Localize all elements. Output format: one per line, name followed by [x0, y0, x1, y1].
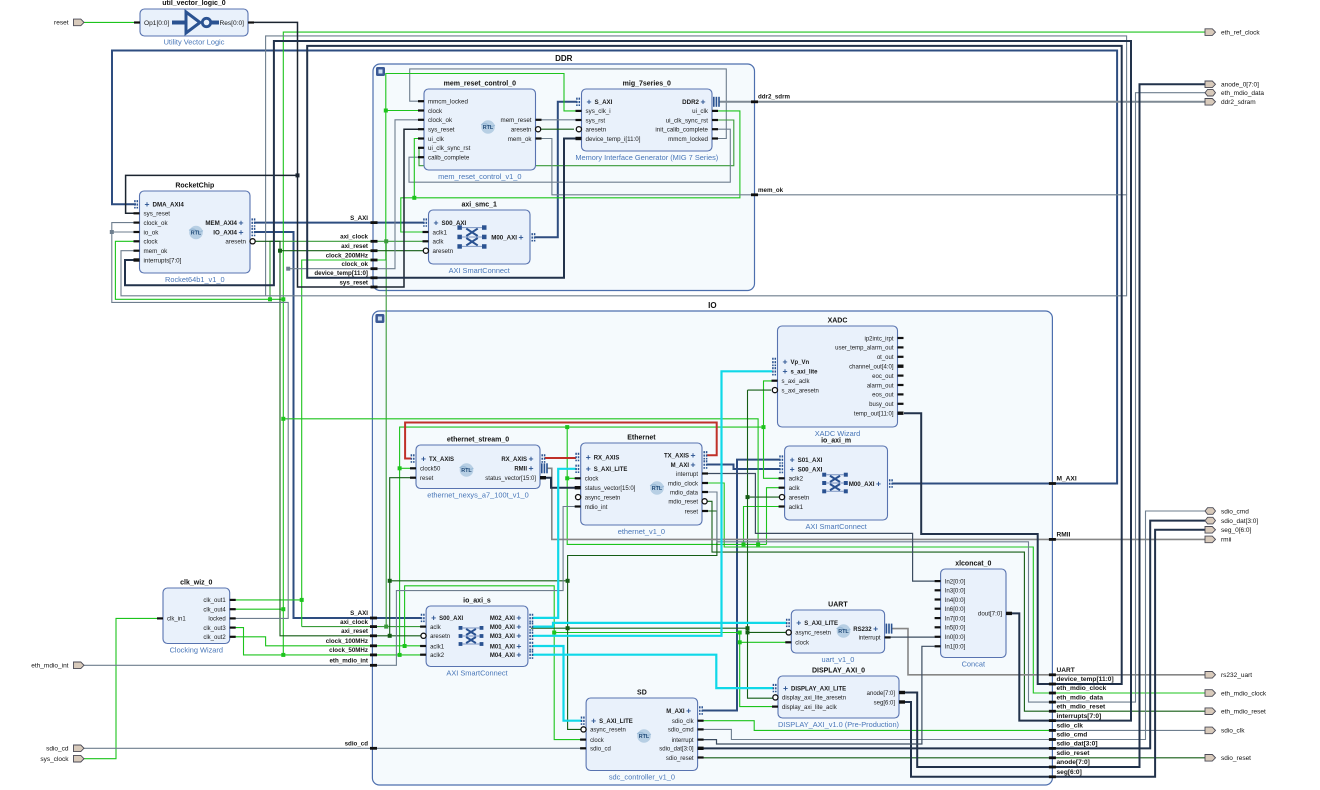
svg-text:clk_out1: clk_out1	[203, 598, 226, 604]
wire axi_reset RocketChip.aresetn to axi_smc_1.aresetn	[256, 241, 425, 252]
svg-text:interrupt: interrupt	[672, 738, 694, 744]
svg-text:RocketChip: RocketChip	[175, 183, 214, 190]
svg-text:mem_reset_control_0: mem_reset_control_0	[444, 81, 516, 88]
svg-text:sdio_cd: sdio_cd	[345, 741, 369, 748]
wire axi_clock riser to io_axi_s.aclk	[302, 625, 422, 629]
svg-text:+: +	[783, 683, 788, 693]
svg-text:mem_reset_control_v1_0: mem_reset_control_v1_0	[438, 172, 521, 181]
port eth_mdio_data	[1205, 89, 1264, 97]
svg-text:aresetn: aresetn	[433, 248, 454, 255]
wire clock spine io area	[552, 631, 742, 635]
svg-text:S01_AXI: S01_AXI	[798, 457, 823, 464]
svg-text:sys_reset: sys_reset	[339, 279, 368, 286]
wire axi_clock riser vertical	[384, 239, 388, 626]
port sdio_cmd	[1205, 508, 1249, 516]
wire axi_reset riser to io_axi_s.aresetn	[280, 251, 422, 638]
svg-text:Res[0:0]: Res[0:0]	[219, 20, 244, 27]
svg-text:eoc_out: eoc_out	[872, 374, 894, 380]
svg-text:S_AXI: S_AXI	[350, 610, 368, 617]
svg-text:reset: reset	[685, 509, 699, 515]
svg-text:clk_wiz_0: clk_wiz_0	[180, 580, 212, 587]
svg-text:eth_mdio_data: eth_mdio_data	[1057, 694, 1104, 701]
svg-text:DMA_AXI4: DMA_AXI4	[153, 202, 185, 209]
svg-text:device_temp[11:0]: device_temp[11:0]	[314, 270, 368, 277]
svg-text:+: +	[586, 464, 591, 474]
svg-text:RX_AXIS: RX_AXIS	[594, 455, 620, 461]
svg-text:DDR: DDR	[555, 54, 573, 63]
svg-text:+: +	[145, 199, 150, 209]
svg-text:IO: IO	[708, 301, 716, 310]
svg-text:AXI SmartConnect: AXI SmartConnect	[805, 522, 866, 531]
svg-text:+: +	[516, 650, 521, 660]
wire axi_clock to axi_smc_1.aclk and RocketChip.clock	[270, 241, 424, 299]
svg-text:sys_rst: sys_rst	[586, 117, 606, 124]
wire clock_50MHz riser	[398, 425, 766, 655]
svg-text:sdio_dat[3:0]: sdio_dat[3:0]	[1221, 518, 1258, 525]
svg-text:In6[0:0]: In6[0:0]	[945, 606, 966, 613]
svg-text:rs232_uart: rs232_uart	[1221, 672, 1252, 679]
svg-text:sdio_cmd: sdio_cmd	[668, 728, 694, 734]
svg-text:device_temp_i[11:0]: device_temp_i[11:0]	[586, 136, 641, 143]
svg-text:alarm_out: alarm_out	[867, 383, 894, 389]
svg-text:eth_mdio_reset: eth_mdio_reset	[1057, 703, 1107, 710]
svg-text:display_axi_lite_aresetn: display_axi_lite_aresetn	[782, 696, 846, 702]
svg-text:+: +	[790, 464, 795, 474]
port rs232_uart	[1205, 672, 1252, 680]
svg-text:M00_AXI: M00_AXI	[849, 481, 875, 488]
svg-text:clock_200MHz: clock_200MHz	[326, 252, 368, 259]
svg-text:RTL: RTL	[191, 231, 202, 237]
svg-text:device_temp[11:0]: device_temp[11:0]	[1057, 676, 1114, 683]
wire clock net RocketChip.clock loop	[115, 241, 283, 301]
port reset	[54, 19, 84, 27]
svg-text:aclk1: aclk1	[430, 644, 445, 650]
svg-text:eth_mdio_clock: eth_mdio_clock	[1057, 685, 1107, 692]
block XADC	[772, 318, 904, 439]
block xlconcat_0	[935, 561, 1012, 669]
svg-text:eth_mdio_clock: eth_mdio_clock	[1221, 690, 1267, 697]
wire SD.interrupt to xlconcat_0.In1	[702, 646, 935, 744]
svg-text:clock_ok: clock_ok	[428, 117, 453, 124]
svg-text:channel_out[4:0]: channel_out[4:0]	[849, 365, 894, 371]
svg-text:M01_AXI: M01_AXI	[490, 644, 515, 650]
svg-text:s_axi_aresetn: s_axi_aresetn	[782, 388, 819, 394]
wire clock_100MHz branch SD.clock	[403, 586, 581, 740]
svg-text:seg[6:0]: seg[6:0]	[874, 700, 896, 706]
svg-text:clock_ok: clock_ok	[342, 261, 369, 268]
svg-text:DISPLAY_AXI_v1.0 (Pre-Producti: DISPLAY_AXI_v1.0 (Pre-Production)	[778, 720, 899, 729]
wire Ethernet.TX_AXIS to ethernet_stream_0.TX_AXIS	[405, 423, 717, 459]
svg-text:DISPLAY_AXI_0: DISPLAY_AXI_0	[812, 668, 865, 675]
wire mem_reset_control.mem_reset to mig.sys_rst	[536, 119, 578, 121]
svg-text:TX_AXIS: TX_AXIS	[664, 454, 689, 460]
port eth_mdio_clock	[1205, 690, 1267, 698]
svg-text:Vp_Vn: Vp_Vn	[791, 360, 810, 366]
svg-text:TX_AXIS: TX_AXIS	[429, 457, 454, 463]
svg-text:sys_reset: sys_reset	[428, 127, 455, 134]
block Ethernet	[575, 435, 708, 537]
svg-text:Memory Interface Generator (MI: Memory Interface Generator (MIG 7 Series…	[575, 153, 718, 162]
svg-text:locked: locked	[208, 617, 225, 623]
block util_vector_logic_0	[134, 0, 254, 47]
svg-text:s_axi_aclk: s_axi_aclk	[782, 379, 811, 385]
wire sdio_cmd SD to port	[702, 511, 1205, 740]
svg-text:+: +	[421, 453, 426, 463]
wire async branch XADC.s_axi_aresetn	[748, 389, 772, 391]
svg-text:temp_out[11:0]: temp_out[11:0]	[854, 412, 894, 418]
svg-text:+: +	[586, 452, 591, 462]
svg-text:clock: clock	[590, 738, 605, 744]
svg-text:+: +	[690, 459, 695, 469]
svg-text:+: +	[783, 366, 788, 376]
svg-text:clock: clock	[795, 641, 810, 647]
svg-text:seg_0[6:0]: seg_0[6:0]	[1221, 527, 1252, 534]
svg-text:reset: reset	[420, 476, 434, 482]
svg-text:axi_smc_1: axi_smc_1	[461, 202, 497, 209]
svg-text:DISPLAY_AXI_LITE: DISPLAY_AXI_LITE	[791, 686, 846, 692]
svg-text:+: +	[686, 705, 691, 715]
block mig_7series_0	[575, 81, 719, 163]
svg-text:sdio_cmd: sdio_cmd	[1221, 508, 1249, 515]
svg-text:M00_AXI: M00_AXI	[490, 625, 515, 631]
svg-text:clk_in1: clk_in1	[167, 617, 186, 623]
svg-text:clock_ok: clock_ok	[144, 220, 169, 227]
svg-text:+: +	[591, 716, 596, 726]
port sdio_dat[3:0]	[1205, 517, 1258, 525]
svg-text:RX_AXIS: RX_AXIS	[501, 457, 527, 463]
svg-text:aresetn: aresetn	[586, 127, 607, 134]
svg-text:sys_clk_i: sys_clk_i	[586, 108, 611, 115]
svg-text:clock: clock	[585, 477, 600, 483]
svg-text:In5[0:0]: In5[0:0]	[945, 625, 966, 632]
svg-text:ethernet_v1_0: ethernet_v1_0	[618, 527, 665, 536]
wire clock_ok branch into DDR mem_reset_control.clock_ok	[288, 120, 424, 269]
wire clock spine east	[283, 419, 760, 547]
svg-text:S00_AXI: S00_AXI	[442, 220, 467, 227]
svg-text:sdio_reset: sdio_reset	[666, 756, 694, 762]
wire mig ui_clk_sync_rst to mem_reset_control.ui_clk_sync_rst	[419, 120, 734, 166]
node hierarchy DDR	[373, 54, 755, 291]
wire axi_reset branch ethernet_stream_0.reset	[390, 478, 416, 636]
svg-text:ui_clk_sync_rst: ui_clk_sync_rst	[666, 117, 709, 124]
svg-text:ui_clk: ui_clk	[692, 108, 709, 115]
svg-text:mem_ok: mem_ok	[758, 187, 784, 194]
port sdio_clk	[1205, 727, 1245, 735]
svg-text:interrupts[7:0]: interrupts[7:0]	[1057, 713, 1102, 720]
wire io_axi_s.M00_AXI to UART.S_AXI_LITE	[533, 623, 787, 627]
svg-text:DDR2: DDR2	[682, 99, 699, 106]
wire io_axi_s.M04_AXI to DISPLAY_AXI_0.DISPLAY_AXI_LITE	[533, 655, 774, 688]
svg-text:S_AXI_LITE: S_AXI_LITE	[804, 621, 838, 627]
svg-text:Rocket64b1_v1_0: Rocket64b1_v1_0	[165, 275, 225, 284]
svg-text:In3[0:0]: In3[0:0]	[945, 588, 966, 595]
svg-text:S_AXI_LITE: S_AXI_LITE	[594, 467, 628, 473]
svg-text:SD: SD	[637, 690, 647, 697]
wire async branch io_axi_m.aresetn	[748, 496, 780, 498]
svg-text:seg[6:0]: seg[6:0]	[1057, 769, 1082, 776]
block mem_reset_control_0	[418, 81, 542, 182]
block SD	[580, 690, 704, 782]
svg-text:clock50: clock50	[420, 467, 441, 473]
svg-text:eth_mdio_int: eth_mdio_int	[329, 658, 368, 665]
svg-text:interrupt: interrupt	[676, 472, 698, 478]
svg-text:RTL: RTL	[838, 629, 849, 635]
svg-text:M_AXI: M_AXI	[671, 463, 690, 469]
wire mem_ok upper trunk	[266, 36, 1127, 296]
svg-text:calib_complete: calib_complete	[428, 155, 470, 162]
wire S_AXI RocketChip.MEM_AXI4 to axi_smc_1.S00_AXI	[254, 222, 424, 224]
svg-text:busy_out: busy_out	[869, 402, 894, 408]
svg-text:aresetn: aresetn	[225, 239, 246, 246]
wire clock branch ethernet_stream_0.clock50	[400, 467, 416, 469]
svg-text:aclk1: aclk1	[433, 229, 448, 236]
block UART	[785, 602, 892, 665]
wire clock branch XADC.s_axi_aclk and io_axi_m.aclk2	[764, 381, 781, 478]
svg-text:RTL: RTL	[461, 468, 472, 474]
svg-text:interrupts[7:0]: interrupts[7:0]	[144, 257, 182, 264]
wire clock branch io_axi_m.aclk1	[744, 507, 781, 545]
node DDR boundary crossings	[371, 221, 378, 224]
svg-text:RTL: RTL	[639, 734, 650, 740]
svg-text:sdio_cmd: sdio_cmd	[1057, 732, 1088, 739]
svg-text:ip2intc_irpt: ip2intc_irpt	[864, 336, 893, 342]
svg-text:M04_AXI: M04_AXI	[490, 653, 515, 659]
svg-text:UART: UART	[828, 602, 848, 609]
svg-text:async_resetn: async_resetn	[590, 728, 626, 734]
wire clock branch UART.clock	[740, 641, 792, 643]
block io_axi_s	[420, 598, 532, 678]
svg-text:RTL: RTL	[652, 486, 663, 492]
svg-text:sdio_reset: sdio_reset	[1057, 750, 1091, 757]
svg-text:aclk2: aclk2	[789, 476, 804, 483]
svg-text:+: +	[796, 618, 801, 628]
svg-text:aclk: aclk	[430, 625, 442, 631]
wire mig ui_clk to axi_smc_1.aclk1 and mem_reset_control.ui_clk	[401, 111, 740, 232]
wire clock_50MHz clk_wiz_0.clk_out3 to io_axi_s.aclk2	[230, 628, 426, 657]
svg-text:util_vector_logic_0: util_vector_logic_0	[162, 0, 226, 7]
svg-text:MEM_AXI4: MEM_AXI4	[205, 220, 237, 227]
node hierarchy IO	[372, 301, 1052, 785]
port eth_mdio_int	[31, 662, 84, 670]
svg-text:eth_mdio_data: eth_mdio_data	[1221, 90, 1264, 97]
wire M_AXI loop io_axi_m.M00_AXI to RocketChip.DMA_AXI4	[112, 51, 1117, 484]
wire clock_100MHz clk_wiz_0.clk_out2 to io_axi_s.aclk1	[230, 637, 426, 646]
svg-text:sdio_cd: sdio_cd	[46, 746, 69, 753]
svg-text:mmcm_locked: mmcm_locked	[428, 99, 468, 106]
svg-text:aresetn: aresetn	[789, 494, 810, 501]
wire axi_smc_1.M00_AXI to mig_7series_0.S_AXI	[535, 102, 578, 238]
block ethernet_stream_0	[410, 437, 548, 500]
wire mig mmcm_locked to mem_reset_control.mmcm_locked	[410, 69, 727, 139]
wire sdio_reset SD to port	[702, 757, 1205, 759]
svg-text:RMII: RMII	[1057, 532, 1071, 539]
wire locked clock_ok net	[110, 223, 290, 619]
wire RMII ethernet_stream_0.RMII to rmii port	[547, 468, 1205, 539]
svg-text:eth_ref_clock: eth_ref_clock	[1221, 29, 1260, 36]
svg-text:clock: clock	[144, 239, 159, 246]
svg-text:io_axi_m: io_axi_m	[821, 438, 851, 445]
wire SD.M_AXI to io_axi_m.S01_AXI	[702, 460, 780, 711]
wire RocketChip.IO_AXI4 to io_axi_s.S00_AXI	[254, 232, 422, 618]
svg-text:IO_AXI4: IO_AXI4	[213, 229, 237, 236]
svg-text:sdio_reset: sdio_reset	[1221, 755, 1251, 762]
wire util_vector_logic_0.Res sys_reset net	[252, 22, 424, 287]
wire io_axi_s.M03_AXI to XADC.s_axi_lite	[533, 371, 773, 636]
wire reset port to util_vector_logic_0.Op1	[84, 21, 140, 23]
svg-text:aclk1: aclk1	[789, 504, 804, 511]
svg-text:reset: reset	[54, 20, 69, 27]
wire device_temp net XADC.temp_out to mig.device_temp_i	[307, 46, 1121, 684]
wire anode DISPLAY_AXI_0.anode to anode_0 port	[905, 84, 1205, 767]
svg-text:mem_ok: mem_ok	[508, 136, 533, 143]
wire interrupts net xlconcat_0.dout to RocketChip.interrupts	[125, 41, 1131, 721]
svg-text:xlconcat_0: xlconcat_0	[955, 561, 991, 568]
svg-text:mig_7series_0: mig_7series_0	[623, 81, 671, 88]
wire UART.RS232 to rs232_uart port	[892, 629, 1205, 675]
wire sdio_dat SD to port	[702, 521, 1205, 749]
svg-text:+: +	[700, 97, 705, 107]
svg-text:interrupt: interrupt	[859, 636, 881, 642]
block RocketChip	[134, 183, 256, 285]
svg-text:M_AXI: M_AXI	[1057, 476, 1077, 483]
svg-text:ot_out: ot_out	[877, 355, 894, 361]
svg-text:user_temp_alarm_out: user_temp_alarm_out	[835, 346, 894, 352]
port anode_0[7:0]	[1205, 81, 1259, 89]
svg-text:async_resetn: async_resetn	[585, 495, 621, 501]
wire clock_200MHz lower riser to io_axi_s.aclk	[301, 600, 303, 627]
svg-text:+: +	[518, 232, 523, 242]
svg-text:M03_AXI: M03_AXI	[490, 634, 515, 640]
wire sdio_cd port to SD.sdio_cd	[84, 747, 581, 749]
svg-text:+: +	[587, 97, 592, 107]
svg-text:ddr2_sdrm: ddr2_sdrm	[758, 94, 790, 101]
svg-text:S_AXI: S_AXI	[350, 215, 368, 222]
svg-text:sdio_clk: sdio_clk	[672, 719, 695, 725]
svg-text:sys_reset: sys_reset	[144, 211, 171, 218]
wire eth_mdio_clock Ethernet.mdio_clock to port	[707, 483, 1206, 693]
wire async_resetn riser	[746, 390, 773, 698]
svg-text:XADC: XADC	[828, 318, 848, 325]
wire eth_ref_clock clk_wiz_0.clk_out4	[230, 32, 1205, 611]
block io_axi_m	[779, 438, 893, 532]
wire seg DISPLAY_AXI_0.seg to seg_0 port	[905, 530, 1205, 777]
port eth_ref_clock	[1205, 29, 1260, 37]
wire sys_clock to clk_wiz_0.clk_in1	[84, 618, 163, 758]
svg-text:sdc_controller_v1_0: sdc_controller_v1_0	[609, 773, 675, 782]
wire clock_ok branch RocketChip.io_ok	[112, 231, 140, 233]
svg-text:sdio_cd: sdio_cd	[590, 747, 611, 753]
svg-text:M00_AXI: M00_AXI	[491, 235, 517, 242]
svg-text:io_ok: io_ok	[144, 229, 160, 236]
svg-text:anode[7:0]: anode[7:0]	[1057, 759, 1090, 766]
svg-text:RTL: RTL	[483, 125, 494, 131]
svg-text:io_axi_s: io_axi_s	[463, 598, 491, 605]
wire Ethernet.reset to SD.async_resetn	[568, 511, 717, 729]
svg-text:+: +	[434, 217, 439, 227]
svg-text:clk_out2: clk_out2	[203, 635, 226, 641]
svg-text:axi_clock: axi_clock	[340, 234, 368, 241]
svg-text:anode[7:0]: anode[7:0]	[867, 691, 896, 697]
svg-text:mdio_clock: mdio_clock	[668, 481, 699, 487]
svg-text:axi_clock: axi_clock	[340, 619, 368, 626]
svg-text:display_axi_lite_aclk: display_axi_lite_aclk	[782, 705, 838, 711]
node IO boundary crossings right	[1049, 482, 1056, 485]
svg-text:axi_reset: axi_reset	[341, 628, 368, 635]
wire mig init_calib_complete to mem_reset_control.calib_complete	[409, 129, 730, 182]
svg-text:+: +	[516, 631, 521, 641]
svg-text:sys_clock: sys_clock	[40, 756, 69, 763]
svg-text:aresetn: aresetn	[430, 634, 450, 640]
svg-text:ui_clk: ui_clk	[428, 136, 445, 143]
svg-text:sdio_dat[3:0]: sdio_dat[3:0]	[659, 747, 694, 753]
svg-text:status_vector[15:0]: status_vector[15:0]	[585, 486, 636, 492]
svg-text:RS232: RS232	[853, 627, 872, 633]
svg-text:ui_clk_sync_rst: ui_clk_sync_rst	[428, 145, 471, 152]
wire eth_mdio_int port to Ethernet.mdio_int	[84, 507, 576, 666]
wire UART.interrupt to xlconcat_0.In0	[890, 636, 935, 638]
svg-text:aclk: aclk	[433, 239, 445, 246]
svg-text:eth_mdio_reset: eth_mdio_reset	[1221, 709, 1266, 716]
svg-text:+: +	[876, 478, 881, 488]
svg-text:S_AXI: S_AXI	[595, 99, 613, 106]
svg-text:clock_50MHz: clock_50MHz	[329, 647, 368, 654]
svg-text:mmcm_locked: mmcm_locked	[668, 136, 708, 143]
wire async_resetn upper branch	[388, 579, 570, 583]
svg-text:+: +	[873, 623, 878, 633]
wire async_resetn tree	[531, 626, 750, 630]
port rmii	[1205, 536, 1231, 544]
wire async branch UART.async_resetn	[748, 631, 786, 633]
block clk_wiz_0	[157, 580, 236, 655]
wire eth_mdio_data Ethernet.mdio_data to port	[707, 93, 1206, 702]
svg-text:aclk: aclk	[789, 485, 801, 492]
svg-text:aresetn: aresetn	[511, 127, 532, 134]
wire clock_200MHz branch mem_reset_control.clock	[386, 110, 424, 112]
wire clk_out4 lower riser	[281, 609, 285, 657]
svg-text:clock_100MHz: clock_100MHz	[326, 638, 368, 645]
svg-text:S_AXI_LITE: S_AXI_LITE	[599, 719, 633, 725]
svg-text:Op1[0:0]: Op1[0:0]	[144, 20, 169, 27]
wire clock branch io_axi_m.aclk	[767, 488, 781, 545]
svg-text:ethernet_stream_0: ethernet_stream_0	[447, 437, 509, 444]
svg-text:clock: clock	[428, 108, 443, 115]
port seg_0[6:0]	[1205, 527, 1252, 535]
wire clock branch Ethernet.clock	[565, 427, 581, 480]
svg-text:async_resetn: async_resetn	[795, 631, 831, 637]
svg-text:S00_AXI: S00_AXI	[798, 466, 823, 473]
wire sdio_clk to port	[1052, 729, 1205, 731]
wire io_axi_s.M01_AXI to SD.S_AXI_LITE	[533, 646, 582, 721]
wire sys_reset branch RocketChip.sys_reset	[126, 175, 298, 213]
wire eth_mdio_reset Ethernet.mdio_reset to port	[708, 501, 1206, 711]
svg-text:s_axi_lite: s_axi_lite	[791, 370, 819, 376]
svg-text:mem_ok: mem_ok	[144, 248, 169, 255]
svg-text:In7[0:0]: In7[0:0]	[945, 615, 966, 622]
svg-text:clk_out4: clk_out4	[203, 608, 226, 614]
svg-text:Ethernet: Ethernet	[627, 435, 656, 442]
wire mem_reset_control.aresetn to mig.aresetn	[541, 128, 574, 130]
port sys_clock	[40, 755, 84, 763]
svg-text:dout[7:0]: dout[7:0]	[978, 611, 1002, 618]
block DISPLAY_AXI_0	[772, 668, 905, 730]
wire mem_ok net mem_reset_control.mem_ok to RocketChip.mem_ok	[121, 139, 1127, 296]
wire sdio_clk SD to IO edge	[702, 721, 1052, 731]
wire clock_200MHz clk_wiz_0.clk_out1 to mig.sys_clk_i	[230, 74, 577, 602]
port sdio_cd	[46, 745, 84, 753]
svg-text:+: +	[528, 453, 533, 463]
svg-text:+: +	[431, 613, 436, 623]
wire status_vector ethernet_stream_0 to Ethernet	[546, 478, 575, 488]
